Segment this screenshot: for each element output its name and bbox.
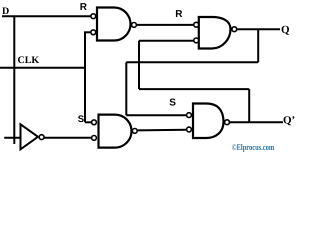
NAND gate U3 — [194, 17, 237, 49]
svg-text:©Elprocus.com: ©Elprocus.com — [232, 142, 275, 152]
wire Q' feedback vertical left — [138, 41, 140, 89]
inverter U5 — [21, 124, 44, 149]
wire Q output: U3 to label Q — [237, 28, 280, 30]
wire CLK branch vertical — [84, 32, 86, 122]
svg-text:R: R — [175, 9, 183, 20]
wire Q feedback vertical left — [125, 62, 127, 115]
svg-text:Q’: Q’ — [283, 115, 295, 127]
NAND gate U4 — [187, 104, 230, 139]
wire inverter U5 input stub — [4, 137, 20, 139]
wire CLK stub to U1 pin 2 — [84, 31, 91, 33]
svg-text:CLK: CLK — [18, 55, 40, 66]
wire R net: U1 output to U3 pin 1 — [137, 24, 194, 26]
NAND gate U1 — [91, 8, 137, 41]
wire S net: U2 output to U4 pin 2 — [138, 129, 187, 132]
svg-text:R: R — [80, 2, 88, 13]
svg-text:S: S — [78, 114, 84, 125]
wire Q' feedback horizontal — [139, 88, 249, 90]
wire Q feedback to U4 pin 1 — [126, 114, 186, 116]
wire D input to U1 pin 1 — [2, 15, 91, 17]
svg-text:S: S — [169, 97, 176, 108]
wire U5 output to U2 pin 2 — [44, 137, 91, 139]
wire Q' feedback to U3 pin 2 — [139, 40, 194, 42]
wire D branch down to inverter U5 — [13, 16, 15, 144]
wire Q' output: U4 to label Q' — [230, 121, 283, 123]
wire CLK input horizontal — [0, 67, 86, 69]
wire Q feedback horizontal — [126, 61, 258, 63]
svg-text:Q: Q — [281, 24, 290, 36]
wire Q feedback vertical drop — [257, 29, 259, 62]
NAND gate U2 — [92, 115, 138, 148]
wire CLK stub to U2 pin 1 — [85, 121, 92, 123]
wire Q' feedback vertical rise — [248, 89, 250, 122]
